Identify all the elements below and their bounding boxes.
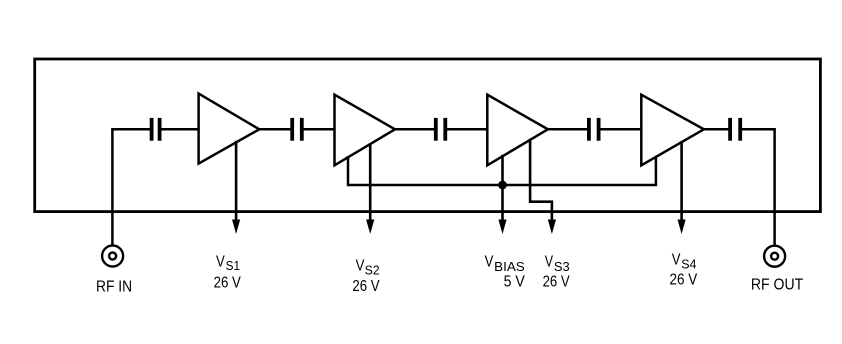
pin VS2 arrow bbox=[366, 143, 374, 234]
connector RF OUT bbox=[764, 246, 785, 267]
pin VS3 arrow bbox=[530, 139, 556, 234]
svg-text:S1: S1 bbox=[226, 258, 240, 273]
wire C5 to RF OUT drop bbox=[741, 129, 774, 245]
capacitor C4 bbox=[587, 118, 601, 141]
wire U4 to C5 bbox=[703, 128, 729, 131]
pin VS4 arrow bbox=[678, 141, 686, 234]
svg-text:S4: S4 bbox=[681, 256, 696, 271]
pin VBIAS arrow bbox=[498, 155, 506, 234]
svg-text:BIAS: BIAS bbox=[494, 259, 525, 274]
connector RF IN bbox=[102, 246, 123, 267]
svg-text:V: V bbox=[216, 254, 225, 271]
wire RF IN riser bbox=[111, 129, 114, 245]
wire U2 bias tap bbox=[347, 156, 350, 186]
op-amp U1 bbox=[199, 94, 260, 164]
capacitor C5 bbox=[728, 118, 742, 141]
wire bias bus bbox=[348, 184, 656, 187]
label VS3 bbox=[545, 254, 570, 274]
pin VS1 arrow bbox=[232, 141, 240, 234]
svg-text:26 V: 26 V bbox=[214, 274, 241, 291]
svg-text:26 V: 26 V bbox=[352, 278, 379, 295]
svg-text:V: V bbox=[485, 254, 494, 271]
wire input to C1 bbox=[111, 128, 150, 131]
wire C3 to U3 bbox=[446, 128, 488, 131]
op-amp U3 bbox=[487, 95, 548, 166]
capacitor C1 bbox=[150, 118, 162, 141]
label VS4 bbox=[672, 252, 697, 272]
svg-text:V: V bbox=[545, 254, 554, 271]
svg-text:V: V bbox=[672, 252, 681, 269]
svg-text:26 V: 26 V bbox=[670, 271, 698, 288]
svg-text:S3: S3 bbox=[554, 259, 570, 274]
svg-text:S2: S2 bbox=[365, 263, 380, 278]
node junction VBIAS bus bbox=[498, 181, 507, 190]
svg-text:RF IN: RF IN bbox=[96, 278, 132, 295]
capacitor C3 bbox=[434, 118, 447, 141]
svg-text:26 V: 26 V bbox=[543, 274, 570, 291]
op-amp U2 bbox=[335, 95, 396, 166]
svg-text:RF OUT: RF OUT bbox=[751, 277, 803, 294]
svg-text:V: V bbox=[356, 258, 365, 275]
wire U1 to C2 bbox=[258, 128, 291, 131]
wire U2 to C3 bbox=[394, 128, 435, 131]
label VS2 bbox=[356, 258, 380, 278]
label VBIAS bbox=[485, 254, 526, 274]
op-amp U4 bbox=[641, 95, 704, 166]
svg-text:5 V: 5 V bbox=[504, 274, 525, 291]
enclosure box bbox=[35, 59, 821, 212]
wire C1 to U1 bbox=[161, 128, 200, 131]
wire C4 to U4 bbox=[600, 128, 642, 131]
label VS1 bbox=[216, 254, 240, 273]
wire U4 bias tap bbox=[655, 156, 658, 186]
wire C2 to U2 bbox=[303, 128, 335, 131]
capacitor C2 bbox=[290, 118, 303, 141]
wire U3 to C4 bbox=[547, 128, 588, 131]
